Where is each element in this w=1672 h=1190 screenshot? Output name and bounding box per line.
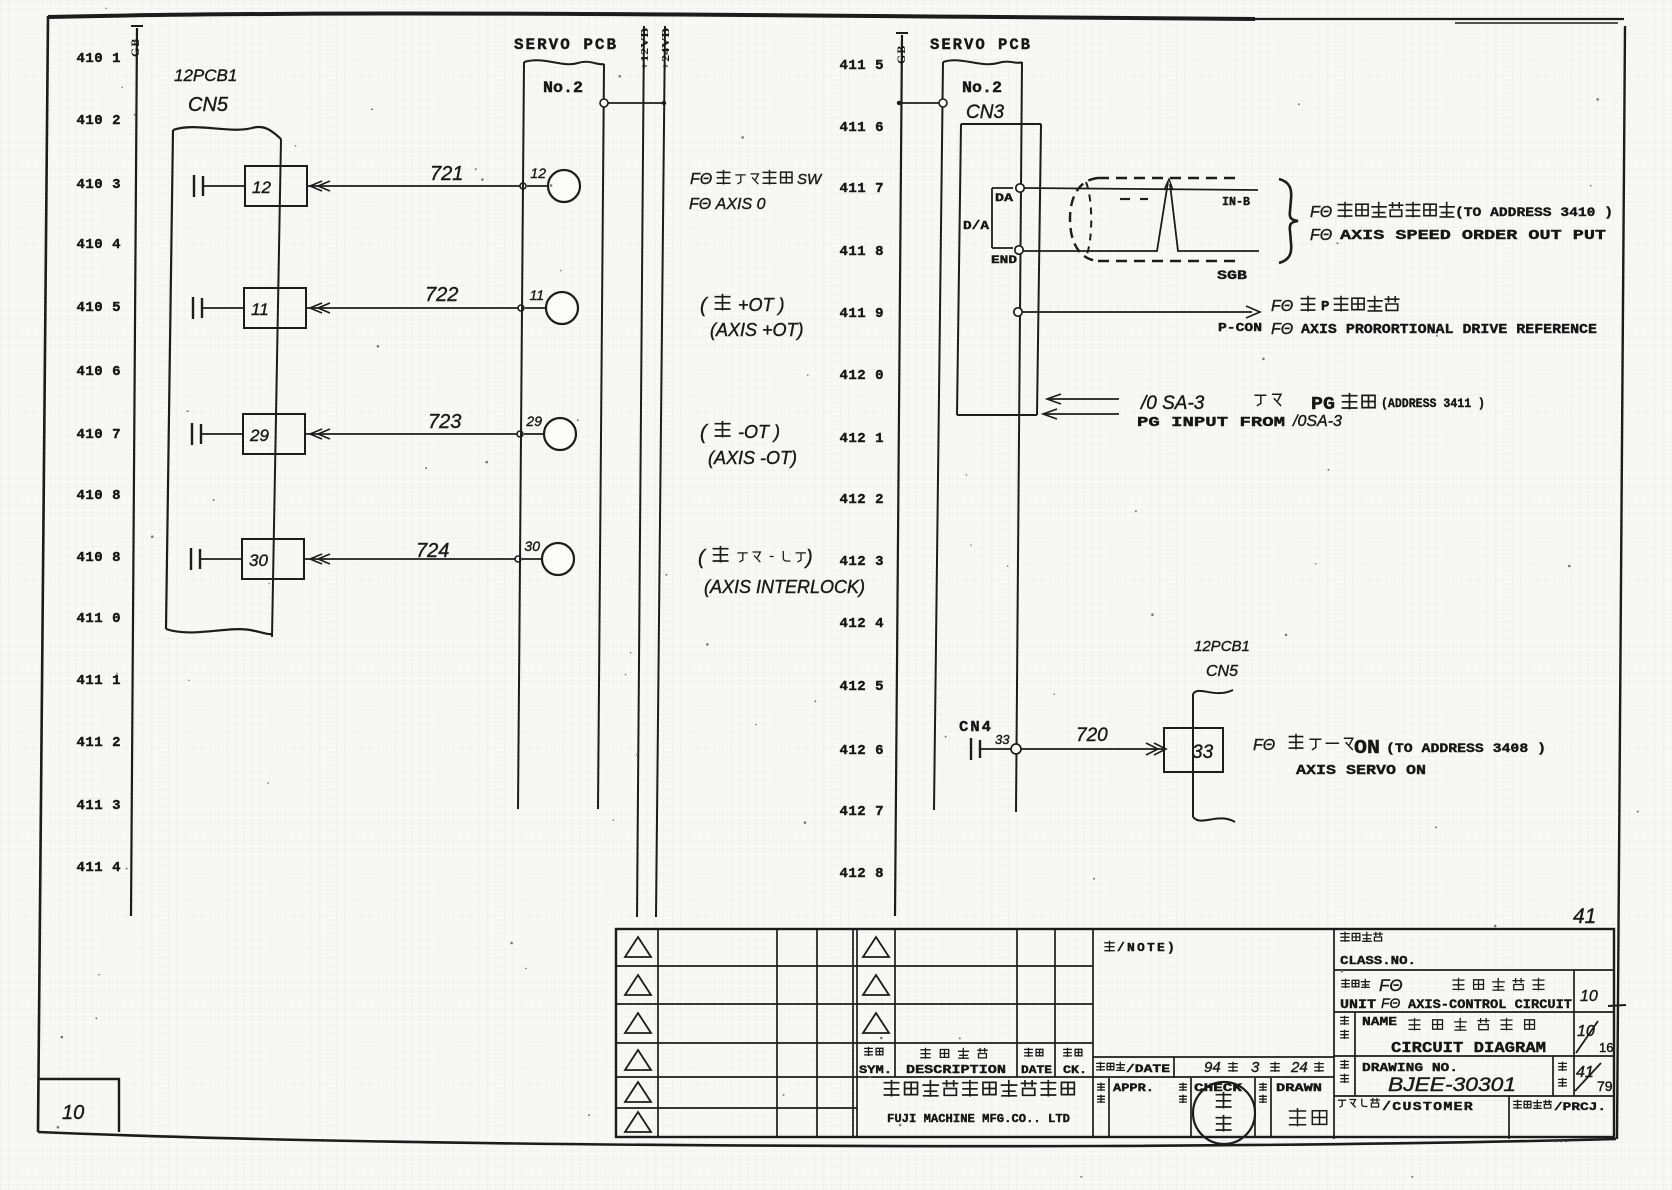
shielded cable (dashed) [1070,178,1238,261]
pin circle 29 on servo pcb no.2 [524,418,576,450]
CUSTOMER cell [1339,1099,1475,1115]
terminal box 12 on CN5 [245,166,307,206]
svg-text:BJEE-30301: BJEE-30301 [1388,1075,1516,1096]
sheet number 10 (handwritten) [1580,988,1626,1006]
chevron arrow into box 12 [310,181,330,191]
wire 720 axis servo on [980,748,1164,750]
svg-text:410 4: 410 4 [76,237,121,253]
svg-text:NAME: NAME [1362,1015,1397,1029]
NOTE cell [1105,941,1177,955]
title block grid lines [616,929,1614,1139]
svg-text:30: 30 [524,538,540,554]
left GB bus rail [128,26,143,916]
wire 723 from servo pcb pin to box 29 [305,433,520,435]
page right border [1617,26,1625,1139]
svg-text:FΘ: FΘ [1381,995,1401,1011]
svg-text:SGB: SGB [1217,268,1247,283]
svg-text:FΘ: FΘ [1310,204,1332,221]
junction node 33 on pin line [1011,744,1021,754]
svg-text:410 8: 410 8 [76,550,121,566]
svg-text:410 5: 410 5 [76,300,121,316]
PG input arrow upper [1047,394,1119,404]
svg-text:411 5: 411 5 [839,58,884,74]
wire P-CON proportional drive reference [1022,306,1260,318]
svg-text:412 2: 412 2 [839,492,884,508]
chevron arrow into box 11 [310,303,330,313]
svg-text:GB: GB [128,38,142,57]
svg-text:16: 16 [1599,1040,1613,1055]
svg-text:12PCB1: 12PCB1 [174,66,237,85]
chevron arrow into box 33 [1146,743,1166,755]
title block outer frame [616,929,1614,1137]
svg-text:UNIT: UNIT [1340,997,1376,1012]
revision triangles (middle column) [863,937,889,1033]
drawn signature (Esaka, handwritten) [1290,1109,1327,1126]
svg-text:412 4: 412 4 [839,616,884,632]
svg-text:723: 723 [428,411,461,433]
svg-text:410 2: 410 2 [76,113,121,129]
junction node on servo pcb left edge, row 30 [515,556,521,562]
svg-text:FΘ AXIS 0: FΘ AXIS 0 [689,196,766,213]
header CK cell [1063,1048,1087,1077]
PROJ cell [1514,1100,1606,1114]
wire from GB rail into servo pcb no.2 [897,99,947,107]
page left border [38,16,48,1132]
check stamp (Yamamoto) [1193,1082,1255,1144]
svg-text:END: END [991,255,1018,267]
header SYM cell [859,1047,892,1077]
svg-text:33: 33 [995,732,1010,747]
pin P-CON on CN3 [1014,308,1022,316]
svg-text:722: 722 [425,284,458,306]
header DATE cell [1021,1048,1052,1077]
svg-text:/NOTE): /NOTE) [1117,941,1177,955]
svg-text:CN4: CN4 [959,719,993,736]
pin DA on CN3 [1016,184,1024,192]
svg-text:GB: GB [894,45,908,64]
svg-text:3: 3 [1251,1059,1260,1076]
svg-text:AXIS PRORORTIONAL DRIVE REFERE: AXIS PRORORTIONAL DRIVE REFERENCE [1301,322,1597,338]
svg-text:-OT ): -OT ) [738,422,780,442]
curly brace for speed order output [1279,179,1298,263]
junction node on servo pcb left edge, row 12 [520,183,526,189]
svg-text:10: 10 [62,1102,84,1124]
capacitor contact row 29 on CN5 [192,423,243,445]
chevron arrow into box 29 [310,429,330,439]
svg-text:(ADDRESS 3411 ): (ADDRESS 3411 ) [1381,396,1485,411]
note: (axis +OT) japanese (handwritten) [700,295,785,317]
chevron arrow into box 30 [310,554,330,564]
wire END / SGB with pulse waveform [1023,182,1259,251]
page fraction 41/79 (handwritten) [1575,1063,1613,1094]
svg-text:APPR.: APPR. [1113,1083,1154,1095]
svg-text:12: 12 [252,178,271,197]
svg-text:FΘ: FΘ [1379,976,1403,995]
capacitor contact row 11 on CN5 [193,297,244,319]
left ladder line-number labels 4101-4114 [76,51,121,876]
terminal box 30 on CN5 [242,539,304,579]
svg-text:CN5: CN5 [188,94,229,116]
svg-text:SERVO PCB: SERVO PCB [514,36,618,54]
svg-text:AXIS-CONTROL CIRCUIT: AXIS-CONTROL CIRCUIT [1408,997,1572,1012]
svg-text:ON: ON [1354,737,1380,759]
svg-text:412 3: 412 3 [839,554,884,570]
note: FΘ AXIS SPEED ORDER OUT PUT [1310,227,1606,244]
svg-text:(AXIS +OT): (AXIS +OT) [710,320,804,340]
terminal box 33 on CN5 [1164,728,1223,772]
svg-text:411 1: 411 1 [76,673,121,689]
svg-text:24: 24 [1290,1059,1308,1076]
svg-text:DRAWING NO.: DRAWING NO. [1362,1061,1458,1075]
svg-text:(TO ADDRESS 3408 ): (TO ADDRESS 3408 ) [1386,741,1546,756]
note: axis servo ON (to address 3408) [1253,735,1546,759]
svg-text:FΘ: FΘ [1310,227,1332,244]
svg-text:11: 11 [251,300,269,319]
svg-text:411 7: 411 7 [839,181,884,197]
capacitor contact on CN4 [971,738,980,760]
svg-text:DRAWN: DRAWN [1276,1083,1322,1095]
svg-text:FΘ: FΘ [1271,298,1293,315]
svg-text:/0SA-3: /0SA-3 [1292,413,1342,430]
svg-text:724: 724 [416,540,449,562]
svg-text:12PCB1: 12PCB1 [1194,638,1250,655]
svg-text:410 3: 410 3 [76,177,121,193]
UNIT cell: FΘ axis-control circuit [1340,976,1572,1012]
capacitor contact row 12 on CN5 [194,175,245,197]
svg-text:94: 94 [1204,1059,1221,1076]
svg-text:411 2: 411 2 [76,735,121,751]
svg-text:): ) [804,547,813,569]
page fraction 10/16 (handwritten) [1576,1021,1613,1055]
wire 721 from servo pcb pin to box 12 [307,185,523,187]
pencil dots under table [1555,1140,1567,1142]
svg-text:CLASS.NO.: CLASS.NO. [1340,954,1416,968]
servo pcb no.2 (right) outline [934,60,1022,812]
connector 12PCB1 CN5 outline (left) [166,127,281,637]
svg-text:41: 41 [1573,905,1596,928]
note: FΘ AXIS PRORORTIONAL DRIVE REFERENCE [1271,321,1597,338]
svg-text:412 6: 412 6 [839,743,884,759]
svg-text:FΘ: FΘ [690,171,712,188]
connector 12PCB1 CN5 segment (right) [1193,690,1235,822]
wire 722 from servo pcb pin to box 11 [306,307,521,309]
company name cell: Fuji Machine Mfg. Co. Ltd [884,1081,1074,1126]
svg-text:PG INPUT FROM: PG INPUT FROM [1137,415,1285,431]
svg-text:/0 SA-3: /0 SA-3 [1139,393,1205,414]
svg-text:CIRCUIT DIAGRAM: CIRCUIT DIAGRAM [1391,1040,1546,1057]
svg-text:411 0: 411 0 [76,611,121,627]
svg-text:29: 29 [525,413,542,429]
sheet number box (bottom left) [38,1079,119,1132]
CLASS.NO. cell [1340,932,1416,968]
svg-text:29: 29 [249,426,269,445]
svg-text:IN-B: IN-B [1222,195,1250,209]
svg-text:11: 11 [529,287,544,303]
svg-text:DA: DA [995,193,1014,205]
svg-text:AXIS SERVO ON: AXIS SERVO ON [1296,763,1426,779]
svg-text:411 6: 411 6 [839,120,884,136]
svg-text:410 8: 410 8 [76,488,121,504]
svg-text:SW: SW [797,171,823,188]
junction node on servo pcb left edge, row 11 [518,305,524,311]
svg-text:411 3: 411 3 [76,798,121,814]
note: (axis -OT) japanese (handwritten) [700,422,780,444]
svg-text:720: 720 [1076,725,1108,746]
note: (axis interlock) japanese (handwritten) [698,547,813,569]
svg-text:/PRCJ.: /PRCJ. [1554,1102,1606,1114]
svg-text:P-CON: P-CON [1218,321,1262,335]
capacitor contact row 30 on CN5 [191,548,242,570]
svg-text:CN5: CN5 [1206,663,1238,680]
svg-text:CK.: CK. [1063,1065,1087,1077]
wire from servo pcb no.2 to +24V rail [600,99,666,107]
right ladder line-number labels 4115-4128 [839,58,884,882]
page top border [48,14,1255,19]
svg-text:DESCRIPTION: DESCRIPTION [906,1063,1006,1077]
svg-text:721: 721 [430,163,463,185]
right GB bus rail [894,33,908,916]
header DESCRIPTION cell [906,1048,1006,1077]
svg-text:(AXIS INTERLOCK): (AXIS INTERLOCK) [704,577,865,597]
svg-text:79: 79 [1597,1078,1613,1094]
svg-text:412 0: 412 0 [839,368,884,384]
svg-text:+OT ): +OT ) [738,295,785,315]
svg-text:SERVO PCB: SERVO PCB [930,36,1032,54]
svg-text:FUJI MACHINE MFG.CO.. LTD: FUJI MACHINE MFG.CO.. LTD [887,1112,1070,1126]
wire DA output (IN-B) [1024,188,1258,190]
svg-text:33: 33 [1192,742,1214,763]
PG input arrow lower [1043,409,1119,419]
wire 724 from servo pcb pin to box 30 [304,558,518,560]
approval row: APPR / CHECK / DRAWN [1098,1083,1322,1102]
note: PG input from 10SA-3 (japanese) [1139,393,1485,415]
pin circle 12 on servo pcb no.2 [527,170,580,202]
svg-text:DATE: DATE [1021,1065,1052,1077]
+12V power rail [637,26,651,917]
svg-text:(TO ADDRESS 3410 ): (TO ADDRESS 3410 ) [1455,205,1613,220]
note: PG INPUT FROM 10SA-3 [1137,413,1342,431]
svg-text:No.2: No.2 [962,79,1002,97]
page bottom border [38,1132,1616,1146]
svg-text:CN3: CN3 [966,102,1004,123]
svg-text:411 9: 411 9 [839,306,884,322]
svg-text:D/A: D/A [963,219,990,233]
svg-text:411 8: 411 8 [839,244,884,260]
svg-text:412 5: 412 5 [839,679,884,695]
svg-text:410 7: 410 7 [76,427,121,443]
pin circle 11 on servo pcb no.2 [525,292,578,324]
svg-text:+12VB: +12VB [639,27,651,70]
svg-text:P: P [1321,299,1329,315]
servo pcb no.2 (left) outline [518,60,604,809]
svg-text:SYM.: SYM. [859,1065,892,1077]
pin END on CN3 [1015,246,1023,254]
junction node on servo pcb left edge, row 29 [517,431,523,437]
NAME cell: circuit diagram [1341,1015,1546,1057]
svg-text:No.2: No.2 [543,79,583,97]
date row: 94-3-24 [1097,1059,1324,1076]
DRAWING NO. cell: BJEE-30301 [1341,1060,1567,1096]
note: axis P drive order (japanese) [1271,297,1399,315]
svg-text:30: 30 [249,551,268,570]
+24V power rail [656,26,672,917]
svg-text:412 1: 412 1 [839,431,884,447]
revision triangles (left column) [625,937,651,1132]
D/A converter block U1 [963,188,1018,267]
svg-text:/CUSTOMER: /CUSTOMER [1382,1100,1474,1114]
terminal box 11 on CN5 [244,288,306,328]
svg-text:/DATE: /DATE [1126,1064,1171,1076]
svg-text:+24VB: +24VB [660,27,672,70]
svg-text:412 7: 412 7 [839,804,884,820]
svg-text:412 8: 412 8 [839,866,884,882]
svg-text:AXIS SPEED ORDER OUT PUT: AXIS SPEED ORDER OUT PUT [1340,228,1606,244]
svg-text:410 1: 410 1 [76,51,121,67]
connector CN3 outline [957,124,1041,415]
svg-text:410 6: 410 6 [76,364,121,380]
svg-text:PG: PG [1311,395,1335,415]
svg-text:FΘ: FΘ [1253,737,1275,754]
note: axis speed order output (to address 3410) [1310,203,1613,221]
pin circle 30 on servo pcb no.2 [522,543,574,575]
pulse arrowhead [1164,179,1173,190]
svg-text:12: 12 [530,165,546,181]
svg-text:FΘ: FΘ [1271,321,1293,338]
terminal box 29 on CN5 [243,414,305,454]
note: FΘ axis zero set switch (handwritten) [690,171,823,188]
svg-text:10: 10 [1580,988,1598,1005]
svg-text:(AXIS -OT): (AXIS -OT) [708,448,797,468]
svg-text:411 4: 411 4 [76,860,121,876]
